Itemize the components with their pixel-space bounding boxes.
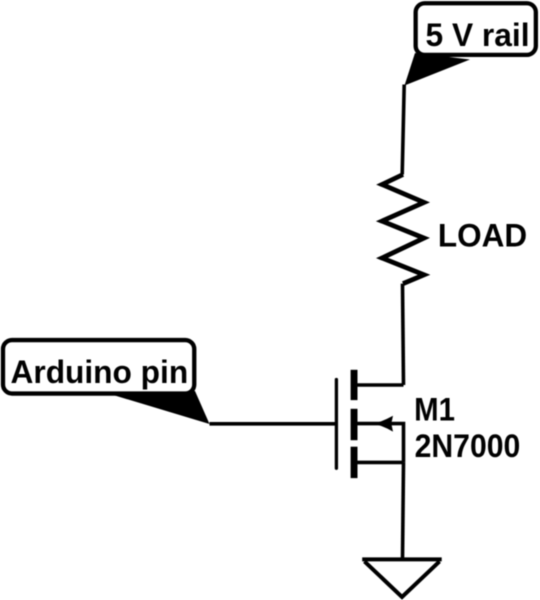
svg-text:5 V rail: 5 V rail [426, 17, 530, 53]
svg-text:LOAD: LOAD [438, 217, 527, 254]
svg-text:M1: M1 [414, 391, 455, 428]
svg-text:Arduino pin: Arduino pin [11, 354, 189, 390]
svg-text:2N7000: 2N7000 [415, 428, 521, 464]
